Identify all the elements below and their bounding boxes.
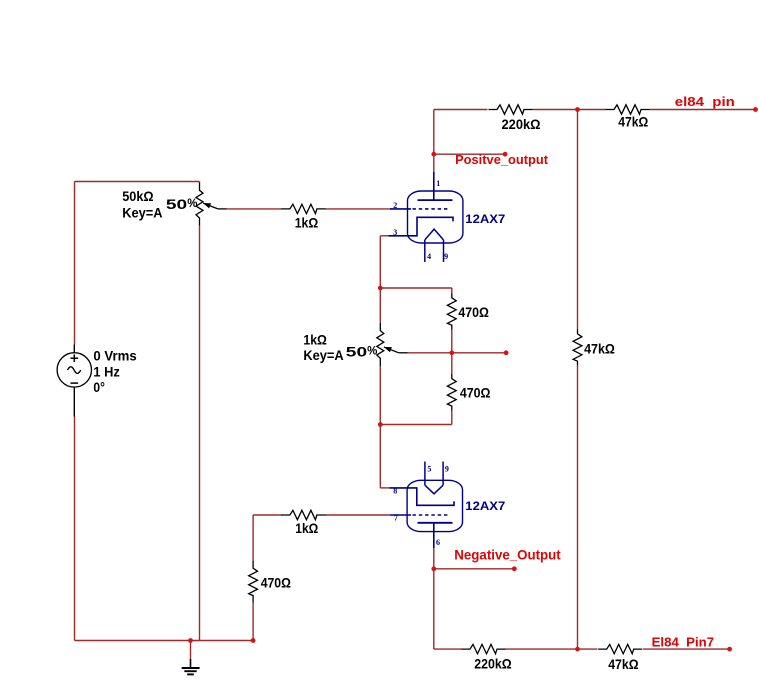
svg-text:5: 5 bbox=[427, 464, 431, 473]
wire 470 top lead bbox=[451, 288, 453, 294]
tube V2 heater lead pin9 bbox=[442, 462, 444, 486]
resistor 1kΩ (top) bbox=[281, 204, 325, 213]
svg-text:el84 pin: el84 pin bbox=[675, 94, 735, 109]
pin 8 (V2 cathode) bbox=[393, 487, 397, 496]
label 1kΩ (top) bbox=[295, 215, 319, 231]
wire bottom rail mid bbox=[506, 648, 578, 650]
label Key=A (pot2) bbox=[303, 347, 343, 363]
tube V1 plate bbox=[418, 172, 453, 200]
resistor 470Ω (lower) bbox=[447, 374, 456, 410]
junction top-right rail bbox=[575, 107, 580, 112]
junction bottom-right rail bbox=[575, 647, 580, 652]
wire 1k to grid pin2 bbox=[325, 208, 390, 210]
pin 3 (V1 cathode) bbox=[393, 228, 397, 237]
svg-text:7: 7 bbox=[394, 514, 398, 523]
wire tail top to 470 bbox=[380, 287, 452, 289]
label 47kΩ (top) bbox=[618, 113, 648, 129]
label 1 Hz bbox=[93, 364, 119, 380]
svg-text:220kΩ: 220kΩ bbox=[502, 116, 541, 132]
label 0 degrees bbox=[93, 379, 105, 395]
pin 5 (V2 heater) bbox=[427, 464, 431, 473]
ground bbox=[182, 659, 200, 675]
label 470Ω (upper) bbox=[458, 304, 489, 320]
wire right rail upper bbox=[577, 110, 579, 330]
tube V1 cathode bbox=[389, 217, 454, 236]
pin 9 (V1 heater) bbox=[444, 252, 448, 261]
label 50kΩ bbox=[122, 188, 153, 204]
tube V2 envelope bbox=[407, 480, 462, 531]
wire pot1 top stub bbox=[199, 182, 201, 184]
wire top rail segment left bbox=[434, 109, 488, 111]
potentiometer 1kΩ body bbox=[377, 323, 384, 366]
label 220kΩ (bottom) bbox=[474, 656, 511, 672]
svg-text:%: % bbox=[187, 198, 197, 210]
label 220kΩ (top) bbox=[502, 116, 541, 132]
wire 470 top to wiper node bbox=[451, 329, 453, 353]
tube V1 heater lead pin4 bbox=[424, 240, 426, 262]
net label el84 pin bbox=[675, 94, 735, 109]
potentiometer 1kΩ wiper bbox=[384, 347, 407, 353]
svg-text:3: 3 bbox=[393, 228, 397, 237]
tube V1 heater triangle bbox=[425, 229, 444, 240]
svg-text:6: 6 bbox=[436, 538, 440, 547]
junction ground bbox=[188, 638, 193, 643]
label 50% (pot2) bbox=[346, 344, 378, 360]
pin 1 (V1 plate) bbox=[436, 179, 440, 188]
pin 4 (V1 heater) bbox=[427, 252, 431, 261]
label 47kΩ (middle right) bbox=[584, 341, 615, 357]
label 0 Vrms bbox=[93, 348, 136, 364]
wire tail to cathode V2 bbox=[380, 425, 389, 488]
wire left column upper bbox=[74, 182, 76, 345]
wire pot2 bottom bbox=[379, 366, 381, 424]
node Positve_output end dot bbox=[503, 152, 508, 157]
node el84 pin terminal dot bbox=[753, 107, 758, 112]
wire bottom rail right bbox=[643, 648, 730, 650]
resistor 470Ω (upper) bbox=[447, 294, 456, 330]
tube V2 heater lead pin5 bbox=[424, 462, 426, 486]
svg-text:470Ω: 470Ω bbox=[261, 575, 291, 591]
wire top rail segment right bbox=[650, 109, 756, 111]
wire top-left rail bbox=[75, 181, 200, 183]
wire wiper1 to R 1k bbox=[227, 208, 282, 210]
svg-text:Key=A: Key=A bbox=[303, 347, 343, 363]
wire wiper2 line bbox=[407, 352, 506, 354]
pin 7 (V2 grid) bbox=[394, 514, 398, 523]
label 470Ω (bottom left) bbox=[261, 575, 291, 591]
svg-text:Positve_output: Positve_output bbox=[455, 152, 549, 167]
wire plate V2 down bbox=[434, 548, 462, 649]
tube V1 heater lead pin9 bbox=[443, 240, 445, 262]
tube V2 plate bbox=[418, 523, 453, 548]
svg-text:0 Vrms: 0 Vrms bbox=[93, 348, 136, 364]
svg-text:8: 8 bbox=[393, 487, 397, 496]
label 50% (pot1) bbox=[166, 196, 198, 212]
wire pot1 bottom column bbox=[199, 226, 201, 641]
net label Positve_output bbox=[455, 152, 549, 167]
tube V1 grid bbox=[390, 208, 450, 210]
label 470Ω (lower) bbox=[460, 384, 491, 400]
label Key=A (pot1) bbox=[122, 205, 162, 221]
resistor 470Ω (bottom left) bbox=[249, 561, 258, 603]
svg-text:1kΩ: 1kΩ bbox=[303, 332, 327, 348]
svg-text:12AX7: 12AX7 bbox=[465, 501, 505, 513]
wire pot2 top bbox=[379, 288, 381, 323]
tube V2 cathode bbox=[390, 488, 455, 505]
net label El84 Pin7 bbox=[652, 634, 715, 649]
svg-text:47kΩ: 47kΩ bbox=[584, 341, 615, 357]
potentiometer 50kΩ body bbox=[196, 183, 203, 226]
svg-text:1kΩ: 1kΩ bbox=[295, 215, 319, 231]
wire bottom rail 47k left bbox=[578, 648, 598, 650]
junction tail top bbox=[378, 286, 383, 291]
label 47kΩ (bottom) bbox=[608, 656, 638, 672]
label 12AX7 (V1) bbox=[465, 214, 505, 226]
svg-text:50: 50 bbox=[346, 344, 368, 360]
AC source V3 bbox=[57, 345, 91, 417]
svg-text:1 Hz: 1 Hz bbox=[93, 364, 119, 380]
tube V2 heater triangle bbox=[425, 485, 443, 494]
potentiometer 50kΩ wiper bbox=[203, 203, 226, 209]
svg-text:1: 1 bbox=[436, 179, 440, 188]
label 12AX7 (V2) bbox=[465, 501, 505, 513]
svg-text:El84 Pin7: El84 Pin7 bbox=[652, 634, 715, 649]
node wiper2 terminal dot bbox=[504, 350, 509, 355]
junction 470 left column bbox=[251, 638, 256, 643]
resistor 47kΩ (middle right) bbox=[573, 330, 582, 366]
svg-text:4: 4 bbox=[427, 252, 431, 261]
tube V1 envelope bbox=[408, 191, 463, 243]
svg-text:%: % bbox=[367, 345, 377, 357]
wire left column lower bbox=[74, 417, 76, 641]
wire 1k2 left bbox=[253, 515, 282, 561]
node Negative_Output end dot bbox=[512, 566, 517, 571]
svg-text:Key=A: Key=A bbox=[122, 205, 162, 221]
wire right rail lower bbox=[577, 366, 579, 650]
svg-text:220kΩ: 220kΩ bbox=[474, 656, 511, 672]
label 1kΩ (pot2) bbox=[303, 332, 327, 348]
tube V2 grid bbox=[390, 514, 450, 516]
wire wiper node to 470 bottom bbox=[451, 353, 453, 375]
resistor 47kΩ (bottom) bbox=[598, 644, 642, 653]
svg-text:Negative_Output: Negative_Output bbox=[454, 548, 561, 563]
wire bottom-left rail bbox=[75, 640, 254, 642]
wire plate V1 vertical bbox=[433, 110, 435, 172]
svg-text:12AX7: 12AX7 bbox=[465, 214, 505, 226]
junction Negative_Output bbox=[431, 566, 436, 571]
svg-text:470Ω: 470Ω bbox=[458, 304, 489, 320]
resistor 47kΩ (top) bbox=[606, 105, 650, 114]
wire cathode V1 down bbox=[380, 236, 388, 288]
wire Negative_Output stub bbox=[434, 568, 515, 570]
net label Negative_Output bbox=[454, 548, 561, 563]
wire top rail segment mid2 bbox=[578, 109, 606, 111]
wire 470 bottom lead bbox=[380, 410, 452, 424]
pin 6 (V2 plate) bbox=[436, 538, 440, 547]
svg-text:9: 9 bbox=[444, 252, 448, 261]
wire 1k2 to grid pin7 bbox=[325, 514, 390, 516]
svg-text:0°: 0° bbox=[93, 379, 105, 395]
junction tail bottom bbox=[378, 422, 383, 427]
pin 9 (V2 heater) bbox=[445, 464, 449, 473]
resistor 220kΩ (bottom) bbox=[462, 644, 506, 653]
node El84 Pin7 terminal dot bbox=[727, 647, 732, 652]
svg-text:47kΩ: 47kΩ bbox=[608, 656, 638, 672]
pin 2 (V1 grid) bbox=[393, 201, 397, 210]
wire 470 left bottom lead bbox=[252, 603, 254, 641]
wire Positve_output stub bbox=[434, 153, 505, 155]
svg-text:470Ω: 470Ω bbox=[460, 384, 491, 400]
junction wiper2-470 bbox=[449, 350, 454, 355]
label 1kΩ (bottom) bbox=[295, 520, 318, 536]
wire ground stub bbox=[190, 641, 192, 659]
resistor 1kΩ (bottom) bbox=[281, 510, 325, 519]
svg-text:9: 9 bbox=[445, 464, 449, 473]
resistor 220kΩ (top) bbox=[489, 105, 533, 114]
svg-text:50kΩ: 50kΩ bbox=[122, 188, 153, 204]
junction Positve_output left bbox=[431, 152, 436, 157]
svg-text:50: 50 bbox=[166, 196, 188, 212]
wire top rail segment mid bbox=[533, 109, 578, 111]
svg-text:1kΩ: 1kΩ bbox=[295, 520, 318, 536]
svg-text:47kΩ: 47kΩ bbox=[618, 113, 648, 129]
svg-text:2: 2 bbox=[393, 201, 397, 210]
